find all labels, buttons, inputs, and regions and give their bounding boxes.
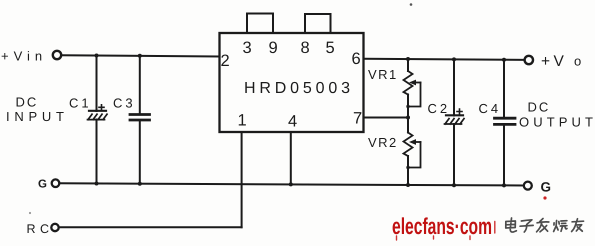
wire pin 6 rail to +Vo (364, 59, 525, 60)
wire C2 branch lower (453, 124, 455, 185)
svg-text:G: G (541, 179, 552, 194)
svg-text:elecfans·com: elecfans·com (392, 213, 492, 239)
watermark drip marks (397, 222, 495, 241)
node junction C1 on top rail (95, 54, 99, 58)
wire G rail (60, 183, 524, 185)
terminal G right (524, 182, 532, 190)
svg-text:C1: C1 (69, 96, 92, 111)
svg-text:INPUT: INPUT (6, 109, 64, 124)
watermark red speck (543, 196, 546, 199)
node junction VR1 top (406, 57, 410, 61)
svg-text:C4: C4 (479, 101, 502, 116)
terminal +Vo (525, 56, 533, 64)
node junction VR2 on G rail (406, 183, 410, 187)
char zi (520, 220, 534, 232)
capacitor C1 electrolytic plates (88, 105, 108, 120)
capacitor C3 plates (130, 115, 150, 121)
svg-text:VR1: VR1 (368, 67, 398, 82)
wire pin 7 stub (364, 117, 409, 119)
char dian (505, 218, 517, 232)
char shao (554, 221, 568, 232)
mounting tab left (247, 14, 273, 34)
wire C2 branch upper (453, 59, 455, 115)
node junction C4 top (502, 58, 506, 62)
wire C3 branch upper (139, 56, 141, 115)
node junction C1 on G rail (95, 182, 99, 186)
char fa (537, 219, 549, 232)
wire pin 4 to G rail (290, 132, 292, 184)
node junction pin7/VR1/VR2 (406, 116, 410, 120)
svg-text:DC: DC (16, 95, 39, 110)
node junction pin4 on G rail (289, 182, 293, 186)
svg-text:C2: C2 (428, 101, 451, 116)
svg-text:VR2: VR2 (368, 135, 398, 150)
capacitor C2 electrolytic plates (445, 109, 465, 124)
svg-text:8: 8 (301, 39, 310, 57)
wire C3 branch lower (139, 120, 141, 184)
terminal +Vin (53, 51, 61, 59)
mounting tab right (305, 14, 331, 33)
wire C1 branch lower (96, 120, 98, 184)
char you (572, 219, 584, 232)
terminal RC (51, 224, 58, 231)
node junction C2 on G rail (452, 183, 456, 187)
node junction C4 on G rail (502, 183, 506, 187)
svg-text:OUTPUT: OUTPUT (519, 115, 593, 130)
speck dots (410, 3, 413, 6)
terminal G left (52, 179, 60, 187)
svg-text:G: G (38, 178, 47, 190)
svg-text:1: 1 (238, 112, 247, 130)
wire top-left rail from +Vin to pin 2 (62, 55, 220, 56)
svg-text:3: 3 (243, 39, 252, 57)
svg-text:6: 6 (352, 50, 361, 68)
node junction C3 on top rail (138, 54, 142, 58)
svg-text:DC: DC (528, 100, 551, 115)
potentiometer VR2 (404, 118, 421, 186)
svg-text:+Vin: +Vin (1, 48, 47, 63)
potentiometer VR1 (404, 59, 421, 118)
svg-text:o: o (574, 54, 581, 69)
svg-text:5: 5 (326, 39, 335, 57)
capacitor C4 plates (495, 118, 516, 124)
wire C1 branch upper (96, 56, 98, 112)
wire C4 branch upper (503, 60, 505, 118)
wire RC rail (59, 226, 242, 228)
node junction C3 on G rail (138, 182, 142, 186)
watermark chinese dianzifashaoyou (505, 218, 583, 232)
svg-text:9: 9 (269, 39, 278, 57)
wire C4 branch lower (503, 124, 505, 185)
svg-text:HRD05003: HRD05003 (244, 80, 350, 97)
svg-text:7: 7 (353, 110, 362, 128)
svg-text:2: 2 (221, 52, 230, 70)
svg-text:RC: RC (27, 222, 54, 236)
op-amp U1 HRD05003 body (220, 33, 364, 132)
svg-text:+V: +V (541, 53, 567, 70)
svg-text:4: 4 (288, 113, 297, 131)
wire pin 1 to RC rail (241, 132, 243, 227)
svg-text:C3: C3 (113, 96, 136, 111)
node junction C2 top (452, 57, 456, 61)
